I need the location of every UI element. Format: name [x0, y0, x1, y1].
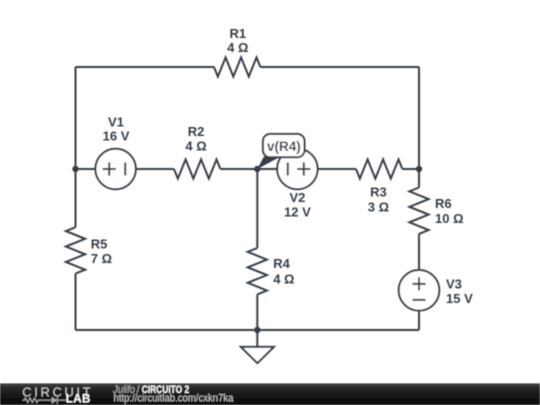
svg-text:R2: R2: [188, 124, 205, 139]
svg-text:v(R4): v(R4): [267, 139, 301, 154]
svg-text:4 Ω: 4 Ω: [185, 139, 206, 154]
svg-text:R1: R1: [229, 26, 246, 41]
svg-text:R3: R3: [370, 185, 387, 200]
svg-text:3 Ω: 3 Ω: [368, 200, 389, 215]
svg-text:R6: R6: [435, 196, 452, 211]
svg-text:4 Ω: 4 Ω: [273, 271, 294, 286]
svg-text:LAB: LAB: [66, 394, 91, 405]
svg-text:7 Ω: 7 Ω: [91, 251, 112, 266]
svg-text:V3: V3: [446, 277, 462, 292]
svg-text:16 V: 16 V: [103, 129, 130, 144]
svg-text:V2: V2: [289, 190, 305, 205]
svg-text:R5: R5: [91, 236, 108, 251]
svg-text:V1: V1: [108, 115, 124, 130]
svg-text:4 Ω: 4 Ω: [227, 40, 248, 55]
svg-text:10 Ω: 10 Ω: [435, 211, 464, 226]
svg-text:R4: R4: [273, 256, 290, 271]
svg-text:12 V: 12 V: [284, 205, 311, 220]
svg-text:15 V: 15 V: [446, 291, 473, 306]
svg-text:http://circuitlab.com/cxkn7ka: http://circuitlab.com/cxkn7ka: [114, 393, 234, 405]
